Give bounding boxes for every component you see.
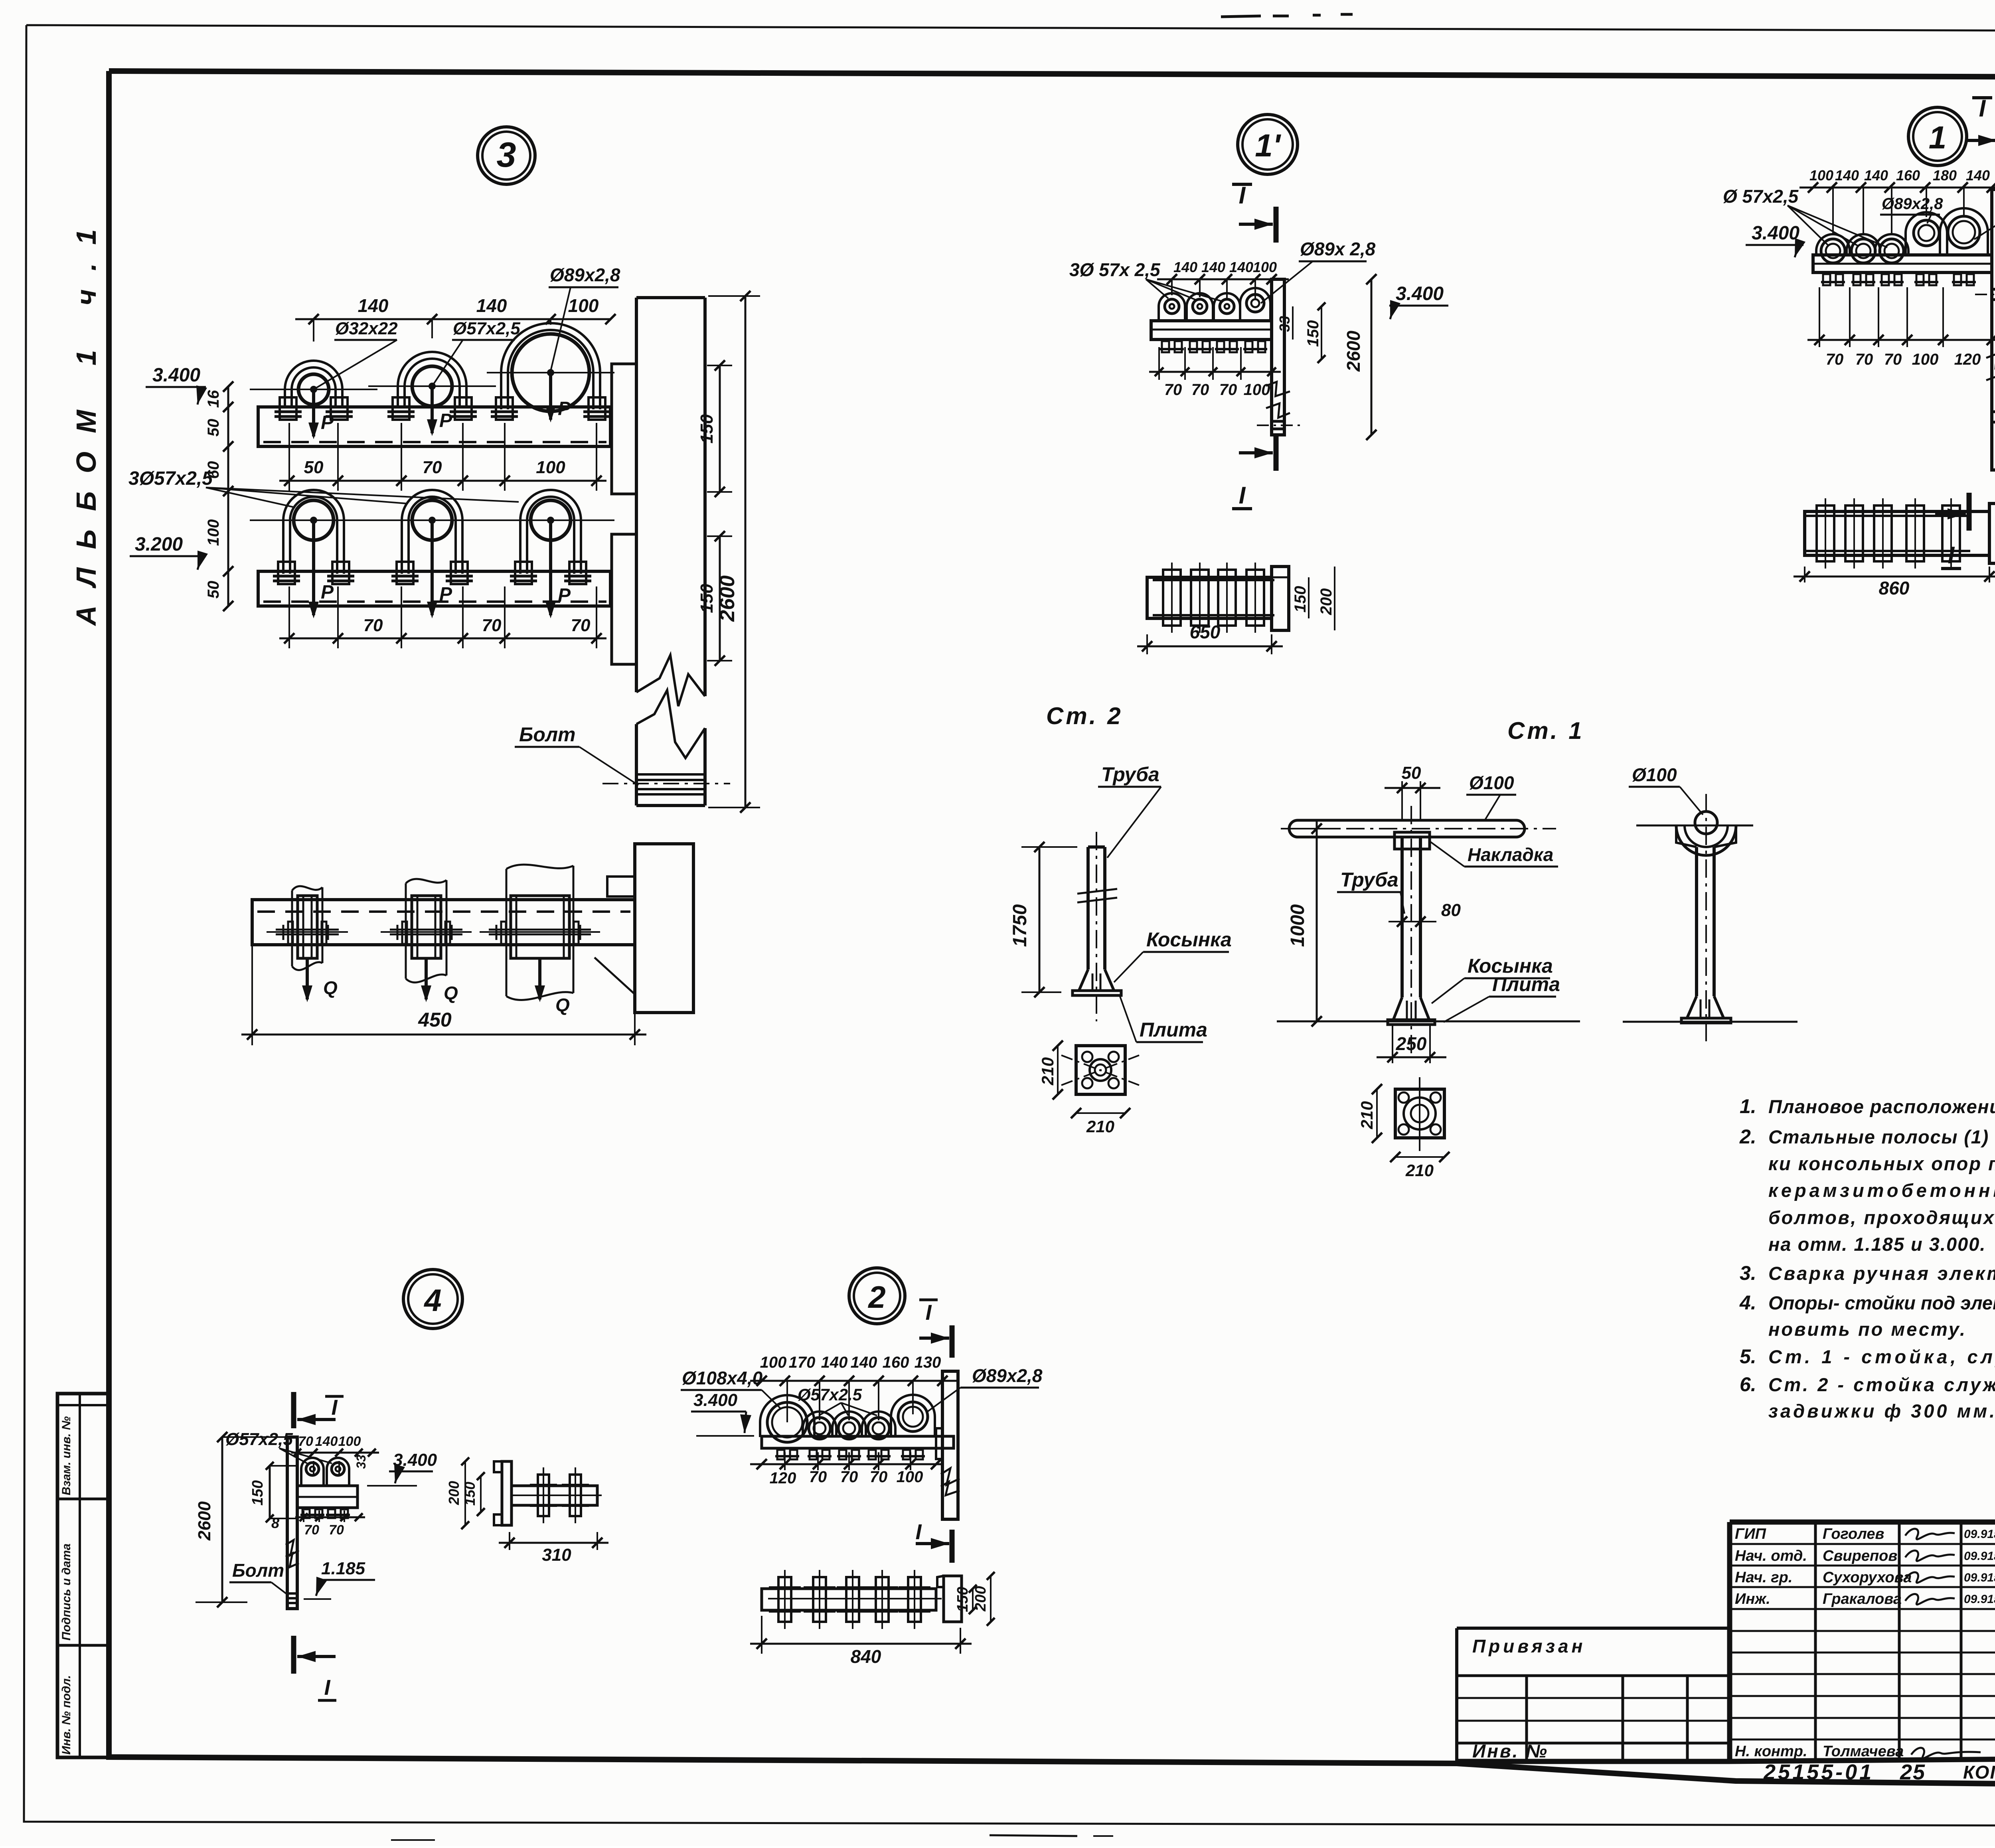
svg-text:Сварка ручная электродуговая: Сварка ручная электродуговая электродами…: [1768, 1263, 1995, 1284]
svg-text:Q: Q: [323, 977, 338, 998]
svg-text:70: 70: [482, 616, 502, 635]
svg-text:P: P: [439, 584, 452, 605]
svg-text:задвижки ф 300 мм.: задвижки ф 300 мм.: [1768, 1400, 1995, 1422]
svg-text:50: 50: [304, 458, 324, 477]
svg-text:ГИП: ГИП: [1735, 1526, 1766, 1542]
svg-text:70: 70: [298, 1434, 313, 1449]
svg-text:210: 210: [1038, 1057, 1057, 1086]
svg-text:Ø57x2,5: Ø57x2,5: [453, 319, 520, 338]
svg-text:210: 210: [1357, 1101, 1376, 1129]
svg-text:1750: 1750: [1009, 904, 1031, 947]
svg-text:25: 25: [1900, 1760, 1926, 1784]
svg-text:09.91г: 09.91г: [1964, 1593, 1995, 1606]
svg-text:Ø57x2.5: Ø57x2.5: [798, 1385, 862, 1404]
svg-text:I: I: [925, 1301, 932, 1325]
svg-text:Ø89x2,8: Ø89x2,8: [550, 265, 620, 285]
svg-text:Косынка: Косынка: [1146, 928, 1232, 951]
svg-text:33: 33: [1276, 316, 1293, 332]
svg-text:1': 1': [1255, 128, 1281, 163]
svg-text:Инж.: Инж.: [1735, 1591, 1770, 1607]
svg-text:Инв. №: Инв. №: [1472, 1741, 1549, 1761]
svg-text:Ø 57x2,5: Ø 57x2,5: [1723, 186, 1799, 207]
svg-text:200: 200: [446, 1481, 462, 1505]
svg-text:3.400: 3.400: [1396, 283, 1444, 304]
svg-text:3.400: 3.400: [1752, 223, 1799, 244]
svg-text:3Ø57x2,5: 3Ø57x2,5: [128, 468, 213, 489]
svg-text:120: 120: [770, 1469, 796, 1487]
svg-text:Ст. 2: Ст. 2: [1046, 703, 1123, 729]
svg-text:130: 130: [915, 1354, 941, 1371]
svg-text:70: 70: [870, 1468, 888, 1486]
svg-text:2.: 2.: [1739, 1125, 1756, 1148]
svg-text:Ст. 1: Ст. 1: [1507, 717, 1584, 744]
svg-text:АЛЬБОМ 1 ч.1: АЛЬБОМ 1 ч.1: [71, 211, 102, 626]
svg-text:25155-01: 25155-01: [1763, 1760, 1874, 1784]
svg-text:33: 33: [354, 1455, 368, 1469]
svg-text:Ø100: Ø100: [1632, 764, 1677, 785]
svg-text:150: 150: [1292, 586, 1309, 613]
svg-text:1000: 1000: [1287, 904, 1308, 947]
svg-text:650: 650: [1190, 622, 1221, 642]
svg-text:70: 70: [809, 1468, 827, 1486]
svg-text:150: 150: [1304, 320, 1322, 347]
svg-text:3.400: 3.400: [152, 365, 200, 386]
svg-text:Н. контр.: Н. контр.: [1735, 1743, 1807, 1760]
svg-text:3.: 3.: [1740, 1262, 1756, 1284]
svg-text:70: 70: [1884, 351, 1902, 368]
svg-text:8: 8: [271, 1515, 279, 1531]
svg-text:50: 50: [205, 581, 222, 599]
svg-text:50: 50: [205, 419, 222, 437]
svg-text:70: 70: [329, 1522, 344, 1538]
svg-text:I: I: [331, 1396, 338, 1420]
svg-text:Ø89x2,8: Ø89x2,8: [972, 1365, 1043, 1386]
svg-text:4.: 4.: [1739, 1291, 1756, 1314]
svg-text:P: P: [439, 410, 452, 431]
svg-text:Плита: Плита: [1140, 1019, 1207, 1041]
svg-text:Труба: Труба: [1101, 763, 1159, 786]
svg-text:70: 70: [363, 616, 383, 635]
svg-text:Стальные полосы (1) в узла: Стальные полосы (1) в узлах 1, 2, 3, 4, …: [1768, 1126, 1995, 1147]
svg-text:Плановое расположение крепле: Плановое расположение крепления см. на л…: [1768, 1096, 1995, 1117]
svg-text:70: 70: [1855, 351, 1873, 368]
svg-text:Накладка: Накладка: [1468, 844, 1553, 865]
svg-text:3: 3: [497, 135, 516, 174]
svg-text:Гракалова: Гракалова: [1823, 1591, 1902, 1607]
svg-text:керамзитобетонным стеновым п: керамзитобетонным стеновым панелям с пом…: [1768, 1180, 1995, 1201]
svg-text:P: P: [558, 585, 571, 606]
svg-text:170: 170: [789, 1354, 816, 1371]
svg-text:болтов, проходящих через го: болтов, проходящих через горизонтальные …: [1768, 1207, 1995, 1228]
svg-text:09.91г: 09.91г: [1964, 1528, 1995, 1541]
svg-text:Подпись и дата: Подпись и дата: [60, 1544, 73, 1641]
svg-text:140: 140: [1835, 167, 1859, 184]
svg-text:Нач. гр.: Нач. гр.: [1735, 1569, 1792, 1586]
svg-text:Плита: Плита: [1492, 973, 1560, 995]
svg-text:100: 100: [1253, 259, 1277, 275]
svg-text:I: I: [1239, 482, 1246, 509]
svg-text:Ø100: Ø100: [1469, 772, 1514, 793]
svg-text:1.: 1.: [1740, 1095, 1756, 1117]
svg-text:Труба: Труба: [1340, 869, 1398, 891]
svg-text:P: P: [558, 398, 571, 419]
svg-text:P: P: [321, 582, 334, 603]
svg-text:160: 160: [1896, 167, 1920, 184]
svg-text:16: 16: [205, 390, 222, 408]
svg-text:150: 150: [697, 584, 717, 613]
svg-text:140: 140: [1966, 167, 1990, 184]
svg-text:09.91г: 09.91г: [1964, 1550, 1995, 1563]
svg-text:80: 80: [1441, 900, 1461, 920]
svg-text:150: 150: [462, 1482, 478, 1506]
svg-text:140: 140: [1229, 259, 1253, 275]
svg-text:840: 840: [851, 1646, 881, 1667]
svg-text:Ст. 1 - стойка, служащая оп: Ст. 1 - стойка, служащая опорой под „гре…: [1768, 1346, 1995, 1367]
svg-text:5.: 5.: [1740, 1345, 1756, 1368]
svg-text:70: 70: [423, 458, 442, 477]
svg-text:160: 160: [883, 1354, 909, 1371]
svg-text:3.200: 3.200: [135, 534, 183, 555]
svg-text:1: 1: [1929, 120, 1947, 155]
svg-text:Q: Q: [444, 983, 458, 1003]
svg-text:I: I: [1239, 182, 1246, 209]
svg-text:100: 100: [760, 1354, 787, 1371]
svg-text:100: 100: [1912, 351, 1939, 368]
svg-text:140: 140: [476, 295, 507, 316]
svg-text:6.: 6.: [1740, 1373, 1756, 1396]
svg-text:140: 140: [1864, 167, 1888, 184]
svg-text:210: 210: [1086, 1117, 1114, 1136]
svg-text:100: 100: [568, 295, 599, 316]
svg-text:450: 450: [418, 1009, 452, 1031]
svg-text:70: 70: [1191, 381, 1209, 399]
svg-text:100: 100: [1809, 167, 1833, 184]
svg-text:Привязан: Привязан: [1472, 1636, 1586, 1656]
svg-text:70: 70: [1219, 381, 1237, 399]
svg-text:Ø89x2,8: Ø89x2,8: [1882, 195, 1943, 213]
svg-text:09.91г: 09.91г: [1964, 1571, 1995, 1584]
svg-text:Инв. № подл.: Инв. № подл.: [60, 1675, 73, 1755]
svg-text:2: 2: [867, 1279, 885, 1315]
svg-text:100: 100: [338, 1434, 361, 1449]
svg-text:140: 140: [821, 1354, 848, 1371]
svg-text:310: 310: [542, 1545, 571, 1565]
svg-text:150: 150: [697, 414, 717, 444]
svg-text:P: P: [321, 412, 334, 433]
svg-text:Гоголев: Гоголев: [1823, 1526, 1884, 1542]
svg-text:2600: 2600: [195, 1501, 214, 1541]
svg-text:180: 180: [1933, 167, 1957, 184]
svg-text:200: 200: [1317, 588, 1335, 616]
svg-text:3.400: 3.400: [693, 1390, 738, 1410]
svg-text:70: 70: [1826, 351, 1844, 368]
svg-text:100: 100: [205, 519, 222, 546]
svg-text:210: 210: [1405, 1161, 1434, 1180]
svg-text:1.185: 1.185: [321, 1559, 365, 1578]
svg-text:4: 4: [423, 1283, 441, 1318]
svg-text:120: 120: [1954, 351, 1981, 368]
svg-text:Свирепов: Свирепов: [1823, 1548, 1897, 1564]
svg-text:150: 150: [954, 1587, 971, 1612]
svg-text:150: 150: [249, 1480, 266, 1505]
svg-text:70: 70: [571, 616, 591, 635]
svg-text:Сухорухова: Сухорухова: [1823, 1569, 1912, 1586]
svg-text:Взам. инв. №: Взам. инв. №: [60, 1416, 73, 1495]
svg-text:Q: Q: [555, 995, 570, 1015]
svg-text:140: 140: [851, 1354, 877, 1371]
svg-text:200: 200: [972, 1586, 989, 1611]
svg-text:I: I: [324, 1676, 330, 1700]
svg-text:70: 70: [1164, 381, 1182, 399]
svg-text:70: 70: [840, 1468, 858, 1486]
svg-text:Опоры- стойки под электрофиц: Опоры- стойки под электрофицированные за…: [1768, 1292, 1995, 1313]
svg-text:Ø108x4,0: Ø108x4,0: [682, 1368, 762, 1388]
svg-text:Ст. 2 - стойка служащая опо: Ст. 2 - стойка служащая опорой под элект…: [1768, 1374, 1995, 1395]
svg-text:ки консольных опор под тру: ки консольных опор под трубопроводы, при…: [1768, 1153, 1995, 1174]
svg-text:2600: 2600: [716, 575, 739, 622]
svg-text:Болт: Болт: [519, 723, 576, 746]
svg-text:Болт: Болт: [232, 1560, 284, 1581]
svg-text:140: 140: [358, 295, 389, 316]
svg-text:70: 70: [304, 1522, 319, 1538]
svg-text:50: 50: [1402, 763, 1421, 783]
svg-text:I: I: [915, 1520, 922, 1544]
svg-text:Ø57x2,5: Ø57x2,5: [225, 1429, 293, 1449]
svg-text:3Ø 57x 2,5: 3Ø 57x 2,5: [1069, 259, 1161, 280]
svg-text:140: 140: [315, 1434, 338, 1449]
svg-text:КОПИРОВАЛ: Ильичёва: КОПИРОВАЛ: Ильичёва: [1963, 1762, 1995, 1783]
svg-text:100: 100: [897, 1468, 923, 1486]
svg-text:Ø89x 2,8: Ø89x 2,8: [1300, 239, 1376, 259]
svg-text:на отм. 1.185 и 3.000.: на отм. 1.185 и 3.000.: [1768, 1234, 1986, 1255]
svg-text:140: 140: [1173, 259, 1197, 275]
svg-text:2600: 2600: [1343, 330, 1364, 372]
svg-text:Ø32x22: Ø32x22: [335, 319, 398, 338]
svg-text:100: 100: [536, 458, 565, 477]
svg-text:новить по месту.: новить по месту.: [1768, 1319, 1967, 1340]
svg-text:Толмачева: Толмачева: [1823, 1743, 1904, 1760]
svg-text:Нач. отд.: Нач. отд.: [1735, 1548, 1807, 1564]
svg-text:860: 860: [1879, 578, 1910, 598]
svg-text:140: 140: [1201, 259, 1225, 275]
svg-text:100: 100: [1244, 381, 1270, 399]
svg-text:250: 250: [1396, 1033, 1427, 1054]
